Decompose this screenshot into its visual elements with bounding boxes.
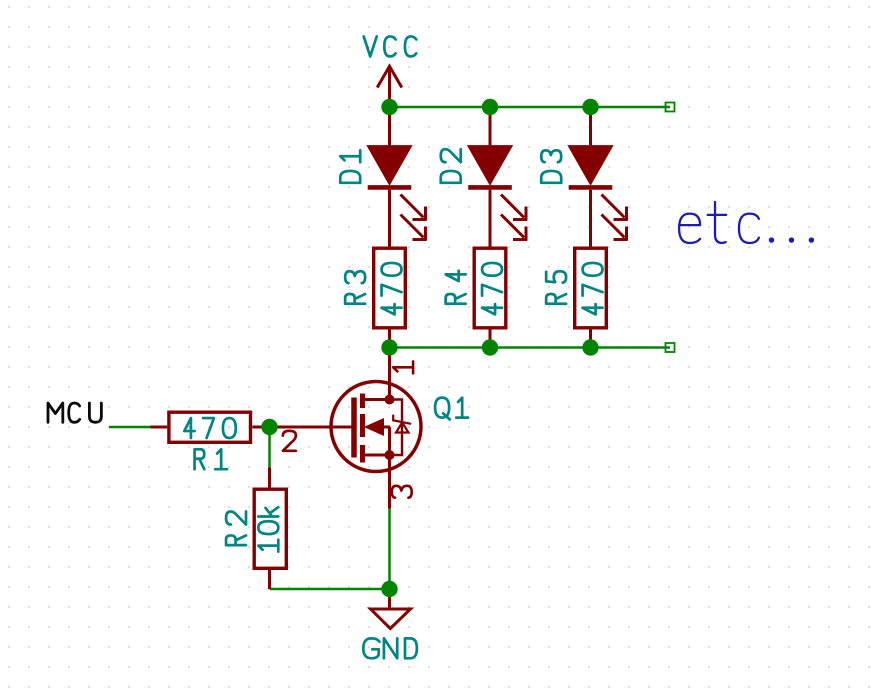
label R1 (195, 449, 227, 469)
resistor R5 (575, 248, 607, 347)
wire MCU to R1 (109, 426, 151, 429)
value 470 (R3) (382, 263, 402, 314)
pin number 3 (Q1 source) (392, 486, 412, 498)
resistor R1 (151, 412, 270, 442)
ground symbol GND (371, 589, 411, 629)
label D2 (441, 149, 461, 183)
junction D2 top (482, 99, 498, 115)
power symbol VCC (377, 66, 402, 107)
LED D3 (569, 107, 628, 248)
value 10k (R2) (258, 507, 278, 551)
wire LED cathode rail (390, 346, 671, 349)
label GND (363, 638, 417, 658)
label R4 (446, 271, 466, 304)
transistor Q1 (N-MOSFET) (270, 348, 422, 509)
LED D1 (368, 107, 427, 248)
net label MCU (48, 403, 101, 422)
value 470 (R5) (583, 263, 603, 314)
wire VCC top rail (390, 106, 671, 109)
value 470 (R4) (482, 263, 502, 314)
unconnected end cathode rail (666, 343, 675, 352)
junction VCC / D1 (381, 99, 397, 115)
resistor R2 (254, 468, 286, 590)
wire Q1 source to GND node (388, 508, 391, 589)
LED D2 (468, 107, 527, 248)
label R5 (546, 271, 566, 303)
junction R4 bottom (482, 339, 498, 355)
wire R2 to GND node (270, 588, 390, 591)
value 470 (R1) (184, 418, 235, 438)
junction R5 bottom (582, 339, 598, 355)
label R3 (345, 271, 365, 303)
label R2 (226, 511, 246, 545)
label D3 (541, 150, 561, 182)
junction R3 bottom (381, 339, 397, 355)
pin number 1 (Q1 drain) (393, 361, 413, 373)
junction GND node (381, 581, 397, 597)
resistor R3 (374, 248, 406, 347)
note text etc... (679, 202, 814, 243)
junction node 2 (R1/R2/gate) (261, 419, 277, 435)
junction D3 top (582, 99, 598, 115)
wire node2 to R2 (268, 427, 271, 468)
unconnected end top rail (666, 103, 675, 112)
resistor R4 (474, 248, 506, 347)
pin number 2 (Q1 gate) (283, 431, 296, 451)
label Q1 (435, 398, 468, 420)
label VCC (364, 36, 417, 56)
label D1 (340, 150, 360, 182)
